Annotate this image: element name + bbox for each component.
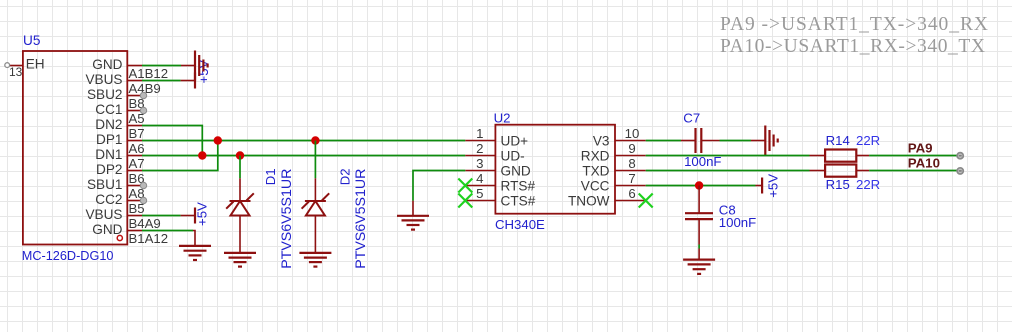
wire A1B12 GND to ground flag xyxy=(142,65,195,67)
svg-text:10: 10 xyxy=(625,126,640,141)
svg-text:VBUS: VBUS xyxy=(85,72,122,87)
svg-text:GND: GND xyxy=(92,57,122,72)
ground flag U5 bottom xyxy=(179,246,211,260)
svg-text:3: 3 xyxy=(476,156,483,171)
wire DP main xyxy=(142,140,465,142)
svg-text:B4A9: B4A9 xyxy=(129,216,161,231)
no-connect X pin6 xyxy=(639,194,653,208)
U5 pin 13 EH xyxy=(5,56,45,79)
svg-text:100nF: 100nF xyxy=(684,154,721,169)
svg-text:UD+: UD+ xyxy=(501,133,529,148)
svg-text:22R: 22R xyxy=(856,177,880,192)
svg-text:TXD: TXD xyxy=(582,163,609,178)
wire B1A12 GND down xyxy=(142,231,195,246)
U5 pin GND B1A12 xyxy=(92,222,168,246)
wire VCC to +5V xyxy=(646,185,762,187)
svg-text:D1: D1 xyxy=(263,168,278,185)
diode D2 PTVS6V5S1UR xyxy=(302,178,330,253)
svg-text:UD-: UD- xyxy=(501,148,525,163)
capacitor C7 xyxy=(696,128,720,153)
U5 pin SBU1 A8 (nc) xyxy=(87,177,147,201)
svg-text:SBU1: SBU1 xyxy=(87,177,123,192)
wire D2 drop xyxy=(314,141,316,179)
svg-text:C7: C7 xyxy=(683,111,700,126)
svg-text:A6: A6 xyxy=(129,141,145,156)
wire DN main xyxy=(142,155,465,157)
svg-text:PA9 ->USART1_TX->340_RX: PA9 ->USART1_TX->340_RX xyxy=(720,14,988,35)
U5 pin DP2 B6 xyxy=(96,162,145,186)
svg-text:13: 13 xyxy=(9,65,23,79)
U2 pin 6 TNOW (nc) xyxy=(568,186,646,208)
svg-text:PA9: PA9 xyxy=(908,140,933,155)
svg-text:R14: R14 xyxy=(826,133,850,148)
wire C8 to ground xyxy=(698,245,700,260)
svg-text:DN2: DN2 xyxy=(95,117,122,132)
U2 pin 3 GND xyxy=(465,156,531,178)
U5 pin SBU2 B8 (nc) xyxy=(87,87,147,111)
junction VCC/C8 xyxy=(695,181,703,189)
svg-text:5: 5 xyxy=(476,186,483,201)
svg-text:MC-126D-DG10: MC-126D-DG10 xyxy=(22,249,114,263)
wire D1 drop xyxy=(239,156,241,179)
port ring PA9 xyxy=(957,153,963,159)
svg-text:PTVS6V5S1UR: PTVS6V5S1UR xyxy=(279,169,295,269)
wire R14 to PA9 port xyxy=(869,155,957,157)
svg-text:TNOW: TNOW xyxy=(568,193,610,208)
U2 pin 5 CTS# (nc) xyxy=(465,186,535,208)
svg-text:SBU2: SBU2 xyxy=(87,87,123,102)
capacitor C8 xyxy=(685,186,713,245)
ground flag (rotated right) C7 xyxy=(765,126,777,156)
svg-text:RTS#: RTS# xyxy=(501,178,536,193)
U5 pin DP1 A6 xyxy=(96,132,145,156)
svg-text:B7: B7 xyxy=(129,126,145,141)
svg-text:B5: B5 xyxy=(129,201,145,216)
U5 pin VBUS A4B9 xyxy=(85,72,160,96)
U2 pin 10 V3 xyxy=(593,126,646,148)
IC U2 outline xyxy=(495,125,615,214)
svg-text:8: 8 xyxy=(628,156,635,171)
svg-text:A7: A7 xyxy=(129,156,145,171)
ground flag pin3 xyxy=(397,216,429,230)
svg-text:VCC: VCC xyxy=(581,178,610,193)
svg-text:R15: R15 xyxy=(826,177,850,192)
U5 pin DN1 A7 xyxy=(95,147,144,171)
U2 pin 7 VCC xyxy=(581,171,646,193)
svg-text:+5V: +5V xyxy=(766,174,781,198)
U2 pin 9 RXD xyxy=(581,141,646,163)
svg-text:EH: EH xyxy=(26,56,45,71)
power flag +5V bottom left xyxy=(195,202,210,226)
ground flag D1 xyxy=(224,253,256,267)
port ring PA10 xyxy=(957,168,963,174)
wire B7 DN2 riser xyxy=(142,126,202,156)
svg-text:DP2: DP2 xyxy=(96,162,122,177)
svg-text:U2: U2 xyxy=(494,111,511,126)
svg-text:U5: U5 xyxy=(23,33,40,48)
U5 pin VBUS B4A9 xyxy=(85,207,160,231)
U5 pin CC1 A5 (nc) xyxy=(95,102,146,126)
ground flag D2 xyxy=(299,253,331,267)
svg-text:D2: D2 xyxy=(338,168,353,185)
junction B6/DP xyxy=(214,136,222,144)
wire A4B9 VBUS to +5V flag xyxy=(142,80,195,82)
U5 pin GND A1B12 xyxy=(92,57,168,81)
U2 pin 8 TXD xyxy=(582,156,645,178)
connector U5 outline xyxy=(23,51,127,245)
svg-text:VBUS: VBUS xyxy=(85,207,122,222)
U5 internal pin ring xyxy=(117,235,122,240)
wire B6 DP2 riser xyxy=(142,141,218,171)
svg-text:9: 9 xyxy=(628,141,635,156)
svg-text:CTS#: CTS# xyxy=(501,193,536,208)
ground flag C8 xyxy=(683,260,715,274)
svg-text:6: 6 xyxy=(628,186,635,201)
svg-text:+5V: +5V xyxy=(195,202,210,226)
svg-text:A1B12: A1B12 xyxy=(129,66,169,81)
U2 pin 4 RTS# (nc) xyxy=(465,171,535,193)
resistor R15 xyxy=(810,165,870,177)
svg-text:A5: A5 xyxy=(129,111,145,126)
resistor R14 xyxy=(810,150,870,162)
svg-text:CH340E: CH340E xyxy=(495,217,545,232)
diode D1 PTVS6V5S1UR xyxy=(226,178,254,253)
wire R15 to PA10 port xyxy=(869,170,957,172)
junction B7/DN xyxy=(198,151,206,159)
svg-text:PA10: PA10 xyxy=(908,155,940,170)
svg-text:V3: V3 xyxy=(593,133,610,148)
wire C7 to ground xyxy=(720,140,766,142)
svg-text:DN1: DN1 xyxy=(95,147,122,162)
svg-text:DP1: DP1 xyxy=(96,132,122,147)
U2 pin 2 UD- xyxy=(465,141,524,163)
svg-text:CC2: CC2 xyxy=(95,192,122,207)
wire TXD to R15 xyxy=(646,170,810,172)
svg-text:GND: GND xyxy=(501,163,531,178)
svg-text:PA10->USART1_RX->340_TX: PA10->USART1_RX->340_TX xyxy=(720,36,985,57)
no-connect X pin5 xyxy=(458,194,472,208)
svg-text:4: 4 xyxy=(476,171,483,186)
svg-text:RXD: RXD xyxy=(581,148,610,163)
svg-text:GND: GND xyxy=(92,222,122,237)
svg-text:1: 1 xyxy=(476,126,483,141)
power flag +5V VCC xyxy=(762,174,780,198)
svg-text:7: 7 xyxy=(628,171,635,186)
wire RXD to R14 xyxy=(646,155,810,157)
svg-text:B1A12: B1A12 xyxy=(129,231,169,246)
no-connect X pin4 xyxy=(458,179,472,193)
U2 pin 1 UD+ xyxy=(465,126,528,148)
wire U2 GND pin3 to ground xyxy=(413,171,465,216)
power flag +5V (rotated) top xyxy=(195,59,211,88)
U5 pin CC2 B5 (nc) xyxy=(95,192,146,216)
svg-text:22R: 22R xyxy=(856,133,880,148)
wire V3 to C7 xyxy=(646,140,696,142)
U5 pin DN2 B7 xyxy=(95,117,144,141)
wire B4A9 VBUS to +5V flag xyxy=(142,215,195,217)
svg-text:PTVS6V5S1UR: PTVS6V5S1UR xyxy=(353,169,369,269)
svg-text:100nF: 100nF xyxy=(719,215,756,230)
svg-text:2: 2 xyxy=(476,141,483,156)
junction D1/DN xyxy=(236,151,244,159)
ground flag (rotated right) top xyxy=(195,51,208,81)
junction D2/DP xyxy=(311,136,319,144)
svg-text:CC1: CC1 xyxy=(95,102,122,117)
